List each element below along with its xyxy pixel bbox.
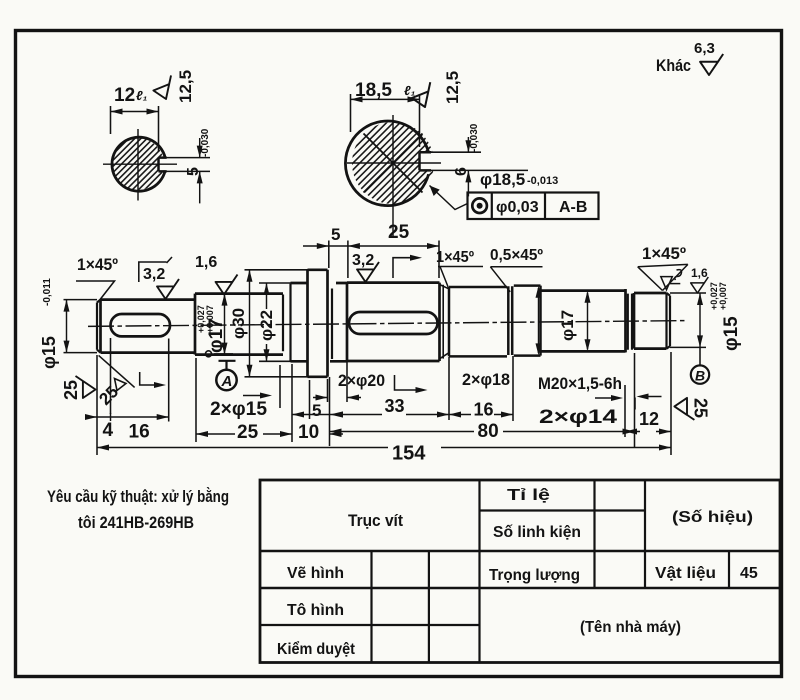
L-arrow top	[393, 258, 416, 278]
3,2 with bracket left journal	[139, 257, 172, 282]
svg-text:-0,030: -0,030	[200, 128, 211, 157]
leader 2xphi15	[243, 395, 268, 397]
dim phi15 left	[64, 300, 98, 353]
svg-text:φ30: φ30	[229, 308, 248, 339]
undercut groove 2xphi15 (left)	[283, 284, 291, 361]
journal left phi15 outline	[101, 300, 196, 353]
hatching section 2	[298, 122, 482, 204]
phi30 collar outline	[308, 270, 328, 377]
step phi15/phi17	[194, 294, 197, 355]
svg-text:Số linh kiện: Số linh kiện	[493, 524, 581, 541]
svg-text:B: B	[695, 368, 705, 384]
svg-text:12: 12	[639, 409, 659, 429]
datum A symbol	[219, 361, 236, 370]
svg-text:Tỉ lệ: Tỉ lệ	[507, 487, 550, 504]
svg-text:1,6: 1,6	[691, 266, 708, 280]
dim 12 right	[625, 352, 671, 455]
svg-text:Yêu cầu kỹ thuật: xử lý bằng: Yêu cầu kỹ thuật: xử lý bằng	[47, 487, 229, 506]
svg-text:φ15: φ15	[721, 316, 742, 351]
svg-text:Tô hình: Tô hình	[287, 602, 344, 619]
dim 6 with tolerance (section 2 keyway width)	[423, 152, 528, 170]
svg-text:φ17: φ17	[558, 310, 577, 341]
svg-text:25: 25	[691, 398, 711, 418]
phi17 section outline	[195, 294, 283, 355]
svg-text:5: 5	[331, 225, 340, 244]
centerlines section 2	[347, 115, 441, 236]
svg-text:φ18,5: φ18,5	[480, 170, 525, 189]
dim 16 right	[512, 356, 514, 421]
svg-text:25: 25	[95, 382, 122, 409]
svg-text:Kiểm duyệt: Kiểm duyệt	[277, 640, 356, 658]
roughness 25 right	[674, 398, 694, 420]
roughness check on keyway diagonal	[115, 379, 127, 391]
phi18 section b outline	[514, 286, 541, 356]
svg-text:φ0,03: φ0,03	[496, 199, 539, 216]
svg-text:-0,013: -0,013	[527, 175, 558, 187]
svg-text:1×45º: 1×45º	[642, 244, 686, 263]
svg-text:12,5: 12,5	[176, 70, 195, 103]
dim 154	[96, 422, 98, 456]
feature control frame	[468, 193, 599, 220]
svg-text:1×45º: 1×45º	[436, 249, 474, 266]
svg-text:+0,007: +0,007	[718, 282, 728, 310]
svg-text:10: 10	[298, 422, 319, 443]
svg-text:5: 5	[185, 167, 202, 176]
svg-text:ℓ₁: ℓ₁	[404, 83, 415, 98]
svg-text:33: 33	[385, 396, 405, 416]
keyway slot cutout section 1	[159, 158, 173, 172]
keyway slot cutout section 2	[420, 152, 437, 170]
dim 10	[329, 377, 331, 446]
L-arrow 2xphi20	[395, 375, 422, 390]
dim 5 and 25 top	[329, 241, 439, 279]
dim 18,5 (section 2)	[351, 94, 420, 147]
svg-text:tôi 241HB-269HB: tôi 241HB-269HB	[78, 513, 194, 532]
svg-text:M20×1,5-6h: M20×1,5-6h	[538, 374, 622, 393]
dim phi22	[259, 283, 291, 361]
svg-text:φ15: φ15	[39, 336, 59, 369]
phi22 segment outline	[291, 283, 308, 361]
dim 4 and 16 row	[97, 338, 169, 422]
svg-text:A: A	[221, 373, 233, 390]
svg-text:2×φ18: 2×φ18	[462, 370, 510, 389]
hatching section 1	[76, 137, 197, 191]
svg-text:+0,007: +0,007	[205, 305, 215, 333]
svg-text:4: 4	[103, 420, 114, 441]
svg-text:Trọng lượng: Trọng lượng	[489, 567, 580, 584]
svg-text:25: 25	[61, 380, 81, 400]
svg-text:(Tên nhà máy): (Tên nhà máy)	[580, 619, 681, 636]
svg-text:2×φ14: 2×φ14	[539, 407, 618, 428]
svg-text:A-B: A-B	[559, 199, 587, 216]
svg-text:6: 6	[453, 167, 470, 176]
svg-text:Trục vít: Trục vít	[348, 511, 403, 530]
svg-text:154: 154	[392, 443, 426, 465]
svg-text:5: 5	[312, 401, 321, 420]
journal right phi15 outline	[634, 293, 667, 349]
roughness 12,5 (section 2)	[409, 82, 438, 110]
svg-text:3,2: 3,2	[352, 252, 374, 269]
small circle on phi17 bottom edge	[206, 351, 212, 357]
dim 33	[448, 357, 450, 420]
dim 80	[634, 353, 636, 448]
M20 thread section outline	[541, 289, 626, 352]
worm right chamfer	[440, 285, 449, 359]
dim phi17 thread	[587, 293, 589, 350]
dim 12 (section 1)	[111, 106, 159, 152]
svg-text:12: 12	[114, 85, 135, 106]
centerlines section 1	[103, 129, 177, 201]
keyway slot lines section 2	[420, 152, 432, 170]
svg-text:1×45º: 1×45º	[77, 255, 118, 274]
svg-text:16: 16	[129, 422, 150, 443]
groove relief inner line	[331, 289, 333, 360]
svg-text:Vẽ hình: Vẽ hình	[287, 565, 344, 582]
circle outline section 1	[112, 137, 165, 191]
dim phi18 inner	[538, 288, 540, 353]
dim 5 with tolerance (section 1 keyway width)	[162, 158, 210, 172]
svg-text:2×φ20: 2×φ20	[338, 371, 385, 390]
phi18 section a outline	[449, 287, 507, 356]
svg-text:16: 16	[474, 400, 494, 420]
svg-text:2×φ15: 2×φ15	[210, 399, 267, 420]
dim phi15 right with datum B	[670, 293, 706, 347]
leader from frame to section 2	[430, 186, 468, 210]
svg-text:1,6: 1,6	[195, 254, 217, 271]
svg-text:ℓ₁: ℓ₁	[136, 88, 147, 103]
roughness 12,5 (section 1)	[151, 75, 179, 102]
journal left end face	[97, 300, 101, 353]
journal right end face and chamfer	[667, 293, 671, 349]
thread undercut groove	[508, 286, 512, 355]
svg-text:12,5: 12,5	[443, 71, 462, 104]
extension lines undercut / collar	[280, 365, 310, 419]
keyway left journal	[111, 314, 171, 336]
X diagonals section 2	[364, 134, 423, 193]
dim phi30	[245, 270, 308, 377]
svg-text:80: 80	[478, 421, 499, 442]
check symbol Khac	[700, 54, 723, 75]
svg-text:25: 25	[388, 222, 410, 243]
svg-text:-0,011: -0,011	[42, 278, 53, 306]
dim 5 bottom	[328, 362, 348, 402]
circle outline section 2	[345, 121, 428, 206]
svg-text:Vật liệu: Vật liệu	[655, 565, 716, 582]
datum B symbol	[699, 347, 701, 365]
dim 10 outside arrow tail	[330, 433, 344, 435]
svg-text:6,3: 6,3	[694, 40, 715, 57]
keyway roughness 25 diagonal	[99, 355, 135, 387]
svg-text:φ22: φ22	[257, 310, 276, 341]
dim 25 bottom left	[196, 358, 292, 442]
svg-text:25: 25	[237, 422, 259, 443]
L-arrow keyway	[140, 372, 160, 385]
svg-text:0,5×45º: 0,5×45º	[490, 247, 543, 264]
groove 2xphi14	[628, 294, 632, 350]
keyway worm section	[349, 312, 438, 334]
svg-text:Khác: Khác	[656, 56, 691, 75]
shaft centerline	[88, 321, 686, 327]
svg-text:-0,030: -0,030	[469, 123, 480, 152]
L-arrow 12	[635, 397, 662, 410]
svg-text:3,2: 3,2	[143, 266, 165, 283]
svg-text:45: 45	[740, 565, 758, 582]
groove 5 wide outline	[330, 283, 347, 361]
worm phi20 section outline	[347, 283, 440, 361]
dim phi17 left with datum A	[224, 294, 226, 355]
keyway slot lines section 1	[159, 158, 167, 172]
svg-text:18,5: 18,5	[355, 80, 392, 101]
svg-text:(Số hiệu): (Số hiệu)	[672, 509, 753, 526]
